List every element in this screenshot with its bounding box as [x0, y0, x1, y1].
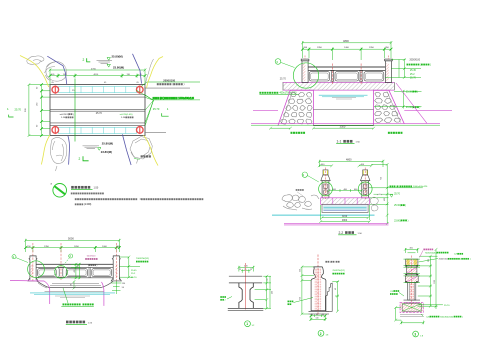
centerline	[317, 255, 319, 317]
right dims det3	[418, 248, 438, 309]
water lines	[30, 292, 115, 294]
svg-text:1000: 1000	[102, 246, 108, 248]
note symbol circle	[51, 183, 67, 198]
intermediate baluster 2	[360, 70, 363, 81]
right abutment	[374, 90, 405, 125]
svg-text:1400: 1400	[344, 47, 350, 49]
svg-text:25.70: 25.70	[96, 112, 103, 115]
top dim line 1	[24, 236, 121, 252]
svg-text:): )	[184, 82, 185, 86]
svg-text:1:2: 1:2	[252, 325, 256, 327]
left dim det3	[394, 306, 401, 321]
plan dimensions	[25, 68, 146, 137]
svg-text:1: 1	[246, 322, 248, 326]
svg-text:(1:200): (1:200)	[84, 204, 92, 206]
svg-text:5000: 5000	[68, 236, 74, 240]
deck outline	[50, 85, 145, 136]
river box	[313, 109, 373, 111]
svg-text:45: 45	[104, 82, 107, 84]
svg-text:1650: 1650	[74, 246, 80, 248]
svg-text:80: 80	[78, 265, 80, 267]
rock cluster bottom-left	[41, 135, 69, 171]
svg-text:i=0.3%(1:4D): i=0.3%(1:4D)	[120, 114, 133, 116]
block C	[405, 276, 418, 283]
texts det2	[325, 261, 327, 263]
curb lines extending right	[145, 87, 190, 89]
water line wide	[272, 214, 375, 216]
svg-text:750: 750	[299, 297, 301, 300]
deck thickness dim	[73, 280, 76, 289]
joint divider	[88, 267, 90, 277]
svg-text:25.30(: 25.30(	[406, 91, 413, 93]
section flag 2 top	[87, 58, 91, 62]
svg-text:1000x400x120: 1000x400x120	[413, 186, 428, 188]
svg-text:400x1700x4700: 400x1700x4700	[279, 92, 297, 95]
svg-text:25.30(: 25.30(	[394, 205, 401, 207]
svg-text:1950: 1950	[317, 47, 323, 49]
svg-text:a: a	[51, 183, 53, 186]
left post	[29, 256, 37, 280]
left abutment	[278, 90, 314, 125]
title rail elevation	[66, 321, 69, 324]
svg-text:25.80(M): 25.80(M)	[102, 142, 113, 146]
joint 1	[405, 265, 419, 267]
svg-text:2: 2	[320, 332, 322, 336]
svg-text:1:10: 1:10	[121, 117, 126, 119]
svg-text:250: 250	[299, 269, 301, 272]
small dims below right post	[111, 281, 121, 294]
deck inner line b	[50, 96, 145, 98]
abutment labels	[291, 132, 293, 134]
svg-text:1100: 1100	[434, 280, 436, 284]
deck slope labels	[60, 90, 134, 119]
rail top lines	[229, 275, 262, 277]
left leader det1	[227, 297, 232, 300]
top dim line 1	[301, 39, 392, 60]
bottom green leader text	[63, 288, 68, 303]
svg-text:1: 1	[7, 107, 9, 111]
25.70 level det3	[418, 304, 443, 306]
abutment inner slopes	[282, 92, 293, 124]
corner post circles (red)	[52, 86, 143, 133]
right leader fan + label	[136, 90, 200, 126]
svg-text:4700: 4700	[91, 68, 97, 70]
svg-text:2: 2	[79, 157, 81, 161]
svg-text:500: 500	[25, 108, 27, 112]
svg-text:05: 05	[52, 82, 55, 84]
dim between posts	[328, 189, 364, 192]
top rail	[36, 263, 113, 265]
svg-text:2000X100: 2000X100	[439, 259, 449, 261]
svg-text:1:25: 1:25	[88, 322, 93, 324]
svg-text:400: 400	[272, 291, 274, 294]
svg-text:3: 3	[414, 333, 416, 337]
bottom dims 2-2	[319, 205, 371, 223]
svg-text:750: 750	[381, 177, 383, 180]
svg-text:25.80(M): 25.80(M)	[112, 54, 123, 58]
top dim det3	[404, 248, 419, 253]
right labels 2-2	[369, 187, 423, 189]
top dim line	[50, 69, 145, 71]
detail circles	[28, 261, 45, 278]
section 1 marks left/right	[7, 107, 169, 117]
leader left det2	[294, 298, 314, 303]
deck inner line a	[50, 94, 145, 96]
svg-text:2: 2	[83, 58, 85, 62]
svg-text:140: 140	[316, 318, 319, 320]
svg-text:i=0.3%T(: i=0.3%T(	[60, 114, 69, 116]
svg-text:23.80(: 23.80(	[406, 107, 413, 109]
right post	[112, 256, 120, 280]
bottom rail line	[36, 277, 113, 279]
baluster outline	[311, 267, 326, 311]
mid panel vertical dims	[71, 263, 81, 279]
svg-text:25: 25	[239, 269, 241, 271]
svg-text:25.70: 25.70	[394, 194, 400, 196]
callout 1	[12, 255, 16, 259]
svg-text:1: 1	[167, 107, 169, 111]
svg-text:160: 160	[37, 102, 39, 106]
deck inner line c	[50, 122, 145, 124]
circled 1	[245, 321, 251, 327]
water line	[319, 94, 368, 96]
circled 2	[318, 330, 324, 336]
svg-text:): )	[408, 220, 409, 222]
base lines	[228, 307, 263, 309]
rock cluster top-right	[133, 54, 164, 88]
right wing slope	[396, 83, 427, 123]
right dims upper	[385, 58, 421, 79]
svg-text:25.70: 25.70	[15, 107, 22, 111]
svg-text:2-2: 2-2	[339, 231, 344, 235]
right texts det3	[423, 249, 425, 251]
section flag 2 bottom	[83, 156, 89, 161]
top dim line 2	[303, 48, 392, 50]
svg-text:4800: 4800	[346, 159, 352, 162]
svg-text:50: 50	[122, 287, 125, 289]
railing panels	[309, 72, 329, 81]
svg-text:3: 3	[276, 60, 278, 64]
svg-text:1:8: 1:8	[420, 335, 424, 337]
svg-text:1:50: 1:50	[94, 187, 99, 190]
top rail	[308, 66, 385, 68]
svg-text:3: 3	[303, 173, 305, 177]
svg-text:700X250(X2): 700X250(X2)	[332, 270, 345, 272]
left slab label	[259, 92, 261, 94]
slab 2-2	[321, 198, 370, 205]
svg-text:1:8: 1:8	[326, 335, 330, 337]
bottom dims det2	[310, 314, 327, 321]
deck slab hatched	[283, 82, 394, 90]
svg-text:40: 40	[311, 314, 313, 316]
svg-text:40: 40	[322, 314, 324, 316]
svg-text:400: 400	[384, 198, 386, 201]
red centerline	[245, 263, 247, 310]
svg-text:4800: 4800	[342, 220, 348, 222]
panels rounded	[38, 269, 57, 277]
svg-text:25.45: 25.45	[410, 70, 416, 72]
svg-text:65: 65	[316, 314, 318, 316]
svg-text:3300: 3300	[340, 124, 346, 128]
bottom railing strip cyan	[59, 127, 137, 133]
intermediate baluster 1	[331, 70, 334, 81]
svg-text:): )	[97, 265, 98, 267]
svg-text:05: 05	[137, 82, 140, 84]
left post 2-2	[321, 168, 330, 200]
callout bubble	[275, 59, 281, 65]
bottom dim between abutments	[269, 124, 375, 129]
beam 2-2	[322, 204, 368, 212]
svg-text:): )	[417, 91, 418, 93]
water level labels below plan	[83, 142, 114, 154]
rock cluster bottom-right	[122, 134, 158, 165]
svg-text:): )	[462, 316, 463, 318]
svg-text:60: 60	[71, 284, 73, 286]
detail callout circle big	[293, 63, 318, 88]
svg-text:700X250(X2): 700X250(X2)	[425, 252, 438, 254]
svg-text:23.80(: 23.80(	[394, 220, 401, 222]
svg-text:1:10: 1:10	[61, 117, 66, 119]
svg-text:25.70: 25.70	[153, 107, 160, 111]
base block det3	[400, 302, 423, 312]
right dims det2	[332, 280, 339, 313]
block B	[407, 267, 417, 273]
green ties det3	[404, 259, 421, 282]
ground lines magenta 2-2	[284, 223, 389, 225]
plan title	[71, 186, 99, 190]
top-right labels of plan	[141, 79, 200, 87]
svg-text:1950: 1950	[369, 47, 375, 49]
post top dims	[319, 165, 331, 167]
svg-text:700X250(X2): 700X250(X2)	[136, 258, 149, 260]
post base flares	[28, 278, 38, 281]
detail circles on posts	[319, 182, 333, 196]
svg-text:25.45: 25.45	[131, 270, 137, 272]
svg-text:23.80(M): 23.80(M)	[113, 65, 124, 69]
right post	[385, 59, 393, 61]
water level labels above plan	[97, 54, 125, 69]
svg-text:2: 2	[70, 254, 72, 258]
svg-text:1: 1	[13, 255, 15, 259]
svg-text:150: 150	[122, 283, 126, 285]
left post	[301, 59, 309, 61]
svg-text:2000X100: 2000X100	[410, 60, 421, 62]
centerlines red dashed	[33, 243, 116, 281]
svg-text:): )	[420, 107, 421, 109]
right molding profile	[325, 283, 332, 311]
magenta deck curves	[10, 281, 50, 305]
deck double lines	[52, 282, 99, 284]
deck inner line d	[50, 125, 145, 127]
cap det3 block A	[406, 259, 418, 265]
svg-text:1:50: 1:50	[358, 233, 363, 235]
svg-text:25.2: 25.2	[131, 273, 136, 275]
svg-text:25.70: 25.70	[410, 78, 416, 80]
right abutment stones	[375, 92, 401, 123]
circled 3	[413, 331, 419, 337]
right dims lower	[374, 90, 422, 109]
I-profile	[239, 283, 253, 308]
svg-text:]: ]	[430, 64, 431, 66]
deck arc below	[36, 280, 113, 287]
svg-text:): )	[73, 114, 74, 116]
svg-text:60: 60	[37, 86, 39, 89]
svg-text:25.70: 25.70	[131, 277, 137, 279]
left dim det2	[301, 266, 314, 316]
right dim vertical 2-2	[369, 163, 388, 225]
svg-text:250: 250	[428, 259, 430, 262]
callout 2	[69, 254, 73, 258]
svg-text:4800: 4800	[343, 39, 349, 43]
svg-text:1-1: 1-1	[337, 140, 342, 144]
left overall dim	[28, 85, 30, 136]
svg-text:25.70: 25.70	[444, 305, 450, 307]
top dim	[238, 266, 255, 273]
ground lines magenta	[253, 110, 278, 112]
right dims det1	[255, 275, 271, 310]
top dim line 2	[26, 247, 120, 249]
rock cluster top-left	[20, 56, 67, 88]
svg-text:350: 350	[385, 47, 389, 49]
section line 2-2 vertical green	[74, 79, 76, 142]
svg-text:300x300x500(: 300x300x500(	[440, 316, 453, 318]
svg-text:25: 25	[250, 269, 252, 271]
svg-text:): )	[405, 205, 406, 207]
svg-text:600X600: 600X600	[87, 256, 97, 258]
deck center joint	[50, 109, 145, 111]
top dim 2-2	[318, 159, 387, 168]
stipple fill center	[315, 268, 322, 311]
callout bubble 2-2	[302, 172, 307, 177]
svg-text:25.70: 25.70	[280, 77, 287, 80]
mid baluster	[59, 267, 64, 277]
svg-text:65: 65	[267, 279, 269, 281]
notes text	[71, 193, 203, 207]
left segment dim	[41, 85, 43, 136]
footing lines	[400, 314, 423, 316]
svg-text:2: 2	[225, 300, 227, 302]
joint 2	[405, 274, 419, 276]
right side dims	[119, 256, 140, 279]
svg-text:400: 400	[74, 270, 76, 273]
bottom dim det3	[400, 321, 425, 325]
base lines	[309, 310, 330, 312]
rocks left 2-2	[282, 195, 319, 210]
svg-text:1350: 1350	[44, 246, 50, 248]
base plate	[404, 299, 421, 301]
svg-text:1000x400x120: 1000x400x120	[178, 97, 194, 100]
left abutment stones	[281, 92, 313, 124]
rocks right 2-2	[370, 194, 382, 211]
svg-text:1:50: 1:50	[356, 142, 361, 144]
top railing strip cyan	[59, 86, 137, 92]
svg-text:3150: 3150	[342, 216, 348, 218]
svg-text:25.2: 25.2	[410, 74, 415, 76]
svg-text:60: 60	[37, 124, 39, 127]
svg-text:23.80(M): 23.80(M)	[101, 150, 112, 154]
right post 2-2	[361, 168, 370, 200]
svg-text:]: ]	[470, 259, 471, 261]
svg-text:350: 350	[304, 47, 308, 49]
svg-text:40: 40	[335, 288, 337, 290]
post shaft det3	[408, 282, 416, 300]
